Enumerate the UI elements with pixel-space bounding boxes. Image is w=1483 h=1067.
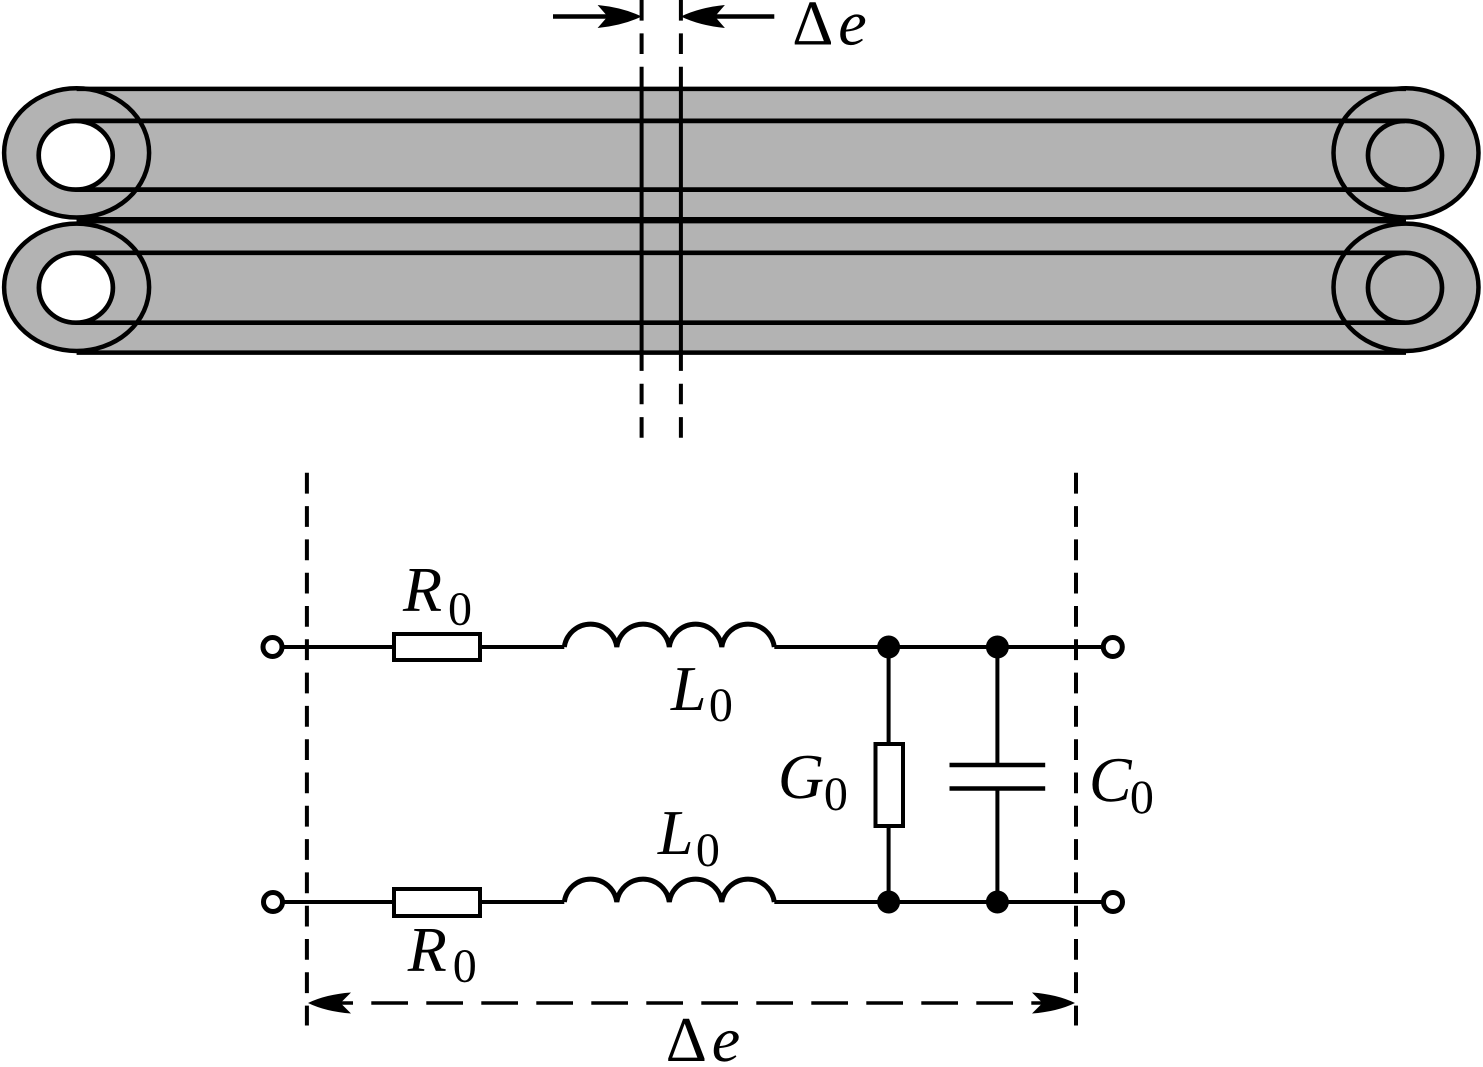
tube 1 top edge line: [77, 87, 1406, 92]
top wire left segment: [281, 645, 564, 649]
label Delta-e (bottom): [666, 1004, 740, 1067]
svg-text:e: e: [838, 0, 866, 59]
svg-text:0: 0: [824, 768, 848, 821]
tube 2 top edge line: [77, 219, 1406, 223]
tube 2 left end ellipse outline: [4, 224, 149, 351]
cable body tube 2 (gray fill): [4, 221, 1478, 352]
tube 1 left end ellipse outline: [4, 88, 149, 217]
section cut line right (dashed above/below, solid across cable): [679, 0, 683, 438]
resistor R0 bottom: [394, 889, 480, 916]
tube 1 inner bore bottom tangent line: [76, 187, 1405, 192]
svg-text:e: e: [712, 1004, 740, 1062]
junction node dot top-right: [986, 636, 1009, 659]
label Delta-e (top): [792, 0, 866, 59]
terminal top-left: [263, 638, 282, 657]
svg-text:Δ: Δ: [792, 0, 833, 59]
terminal bottom-right: [1104, 893, 1123, 912]
tube 2 left bore (white): [39, 253, 113, 323]
label C0: [1089, 744, 1154, 824]
svg-text:0: 0: [448, 583, 472, 636]
tube 1 left bore (white): [39, 121, 113, 190]
capacitor C0 branch: bottom lead: [995, 789, 999, 903]
svg-text:0: 0: [1130, 771, 1154, 824]
bottom wire left segment: [282, 900, 565, 904]
svg-text:C: C: [1089, 744, 1133, 815]
label L0 bottom: [657, 797, 720, 877]
junction node dot bottom-right: [986, 891, 1009, 914]
tube 2 right end ellipse outline: [1334, 224, 1479, 351]
shunt conductance branch wire: [887, 647, 891, 902]
junction node dot bottom-left: [877, 891, 900, 914]
junction node dot top-left: [877, 636, 900, 659]
inductor L0 top: [564, 624, 774, 647]
capacitor C0 branch: top lead: [995, 647, 999, 765]
right dashed boundary line: [1074, 473, 1078, 1026]
tube 1 bottom edge line: [77, 217, 1406, 221]
terminal bottom-left: [264, 893, 283, 912]
section cut line left (dashed above/below, solid across cable): [640, 0, 644, 438]
resistor R0 top: [394, 634, 480, 660]
capacitor C0 bottom plate: [950, 786, 1046, 791]
tube 2 right bore outline: [1368, 253, 1442, 323]
left dashed boundary line: [305, 473, 309, 1026]
top wire right segment: [774, 645, 1104, 649]
bottom dimension right arrowhead: [1032, 993, 1075, 1014]
svg-text:L: L: [657, 797, 694, 868]
svg-text:0: 0: [453, 940, 477, 993]
tube 1 right end ellipse outline: [1334, 88, 1479, 217]
inductor L0 bottom: [564, 879, 774, 902]
tube 1 right bore outline: [1368, 121, 1442, 190]
label L0 top: [670, 653, 733, 732]
bottom wire right segment: [774, 900, 1104, 904]
label R0 bottom: [407, 914, 477, 993]
svg-text:0: 0: [696, 824, 720, 877]
svg-text:R: R: [402, 554, 442, 625]
svg-text:G: G: [778, 741, 824, 812]
bottom dimension left arrowhead: [308, 993, 351, 1014]
tube 2 bottom edge line: [77, 350, 1406, 355]
right arrow of top dimension: [681, 5, 774, 28]
cable body tube 1 (gray fill): [4, 88, 1478, 219]
label R0 top: [402, 554, 472, 636]
svg-text:Δ: Δ: [666, 1004, 707, 1062]
bottom dimension dashed line: [307, 1001, 1076, 1005]
tube 2 inner bore top tangent line: [76, 250, 1405, 255]
tube 2 inner bore bottom tangent line: [76, 320, 1405, 325]
terminal top-right: [1103, 638, 1122, 657]
svg-text:0: 0: [709, 679, 733, 732]
capacitor C0 top plate: [950, 763, 1046, 768]
svg-text:R: R: [407, 914, 447, 985]
svg-text:L: L: [670, 653, 707, 724]
label G0: [778, 741, 848, 821]
conductance G0 (vertical resistor box): [876, 744, 904, 826]
tube 1 inner bore top tangent line: [76, 119, 1405, 124]
left arrow of top dimension: [553, 5, 642, 28]
